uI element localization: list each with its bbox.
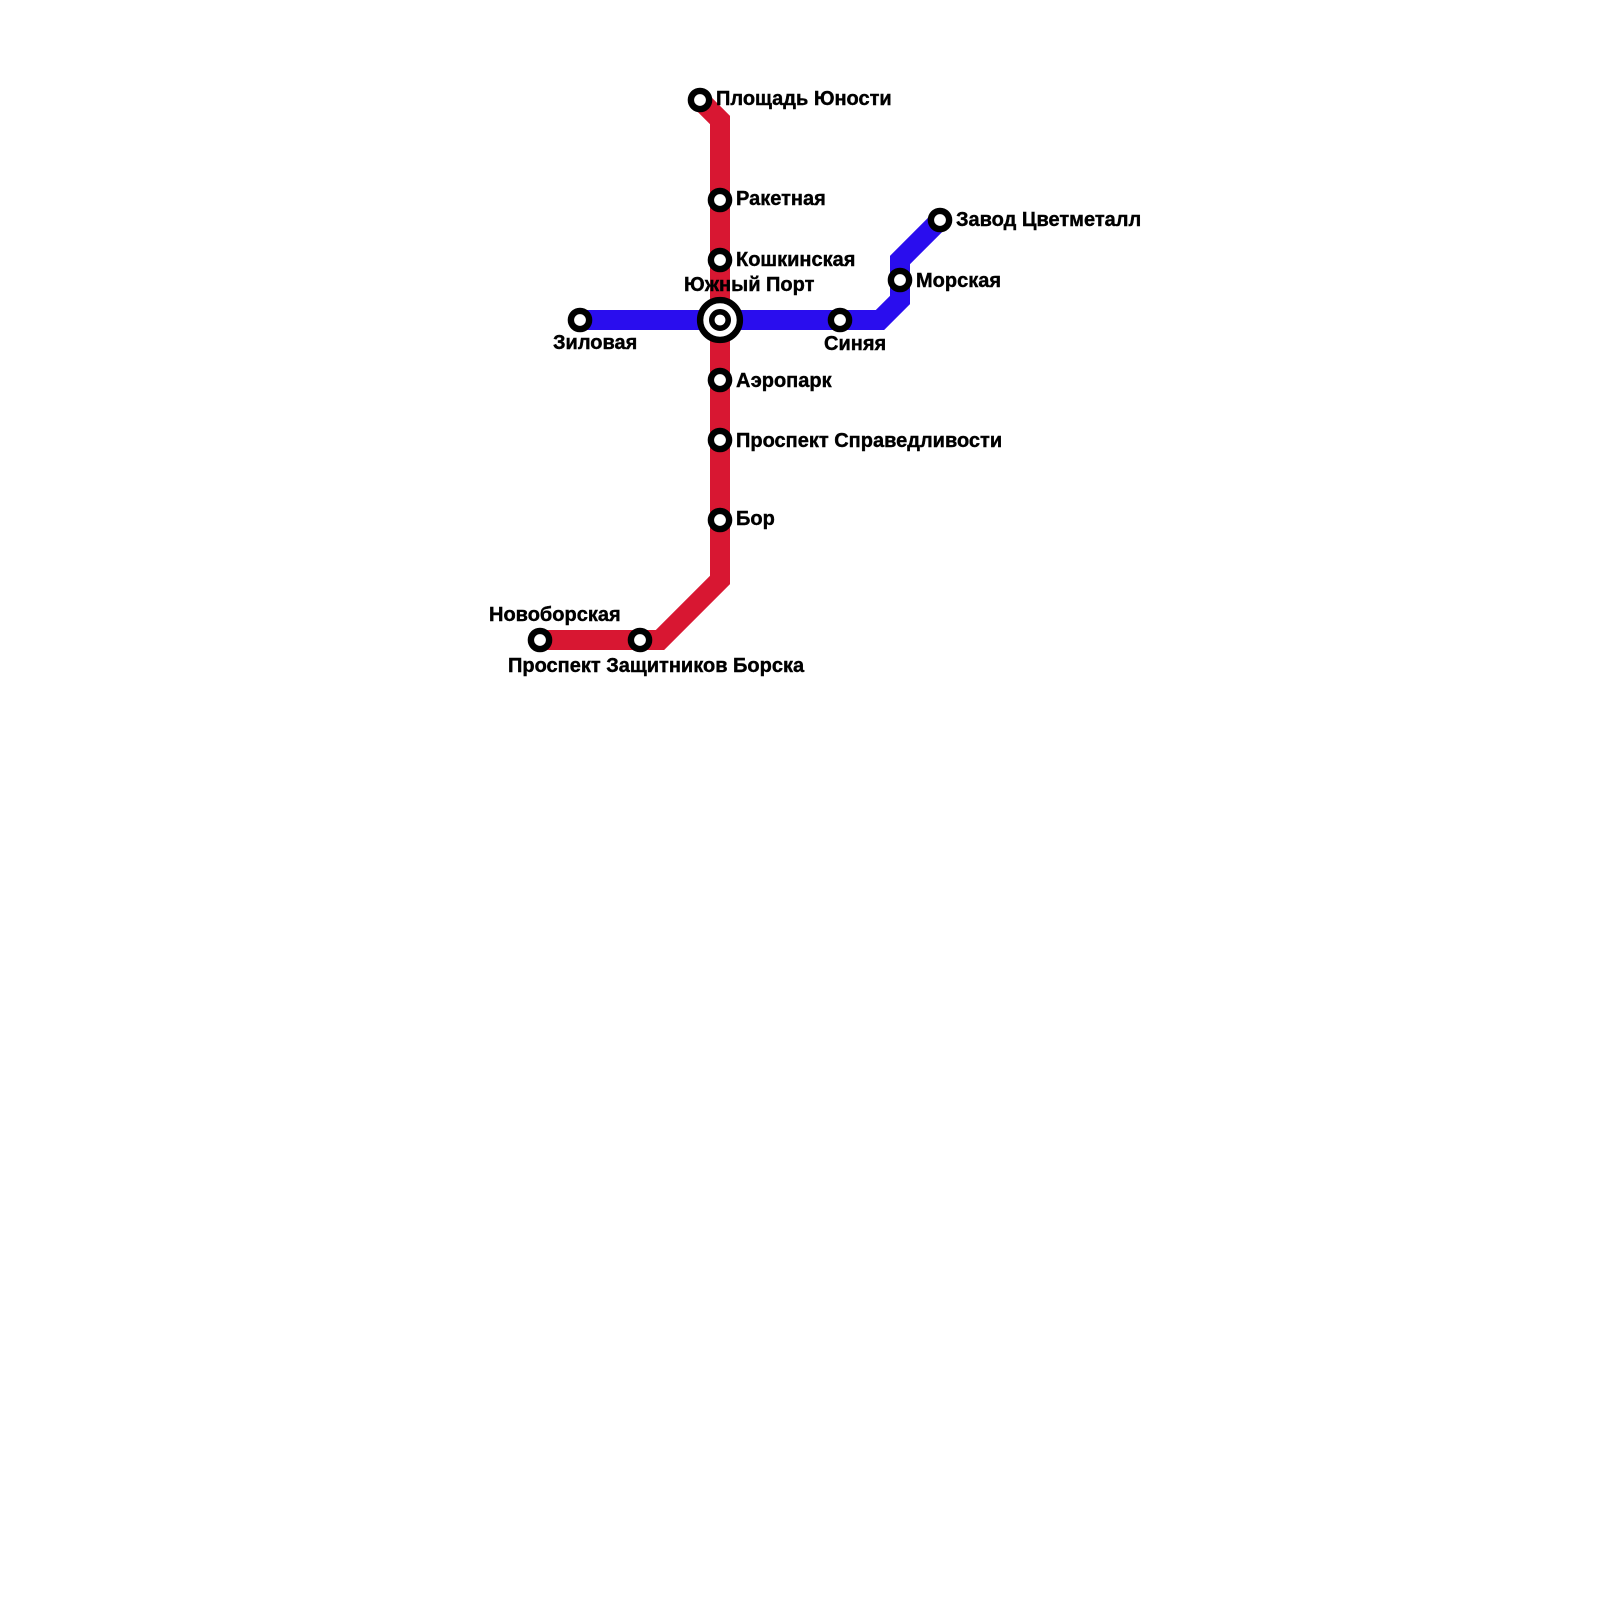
station Проспект Защитников Борска <box>631 631 649 649</box>
station Ракетная <box>711 191 729 209</box>
svg-text:Морская: Морская <box>916 270 1001 292</box>
station Морская <box>891 271 909 289</box>
station Проспект Справедливости <box>711 431 729 449</box>
station Аэропарк <box>711 371 729 389</box>
svg-text:Бор: Бор <box>736 508 775 530</box>
station Синяя <box>831 311 849 329</box>
station Кошкинская <box>711 251 729 269</box>
station Площадь Юности <box>691 91 709 109</box>
station Зиловая <box>571 311 589 329</box>
blue line (horizontal route) <box>580 220 940 320</box>
svg-text:Кошкинская: Кошкинская <box>736 249 855 271</box>
red line (vertical route) <box>540 100 720 640</box>
svg-text:Синяя: Синяя <box>824 333 886 355</box>
svg-text:Зиловая: Зиловая <box>553 332 637 354</box>
station Завод Цветметалл <box>931 211 949 229</box>
svg-text:Завод Цветметалл: Завод Цветметалл <box>956 209 1141 231</box>
svg-text:Аэропарк: Аэропарк <box>736 370 833 392</box>
svg-text:Площадь Юности: Площадь Юности <box>716 88 892 110</box>
station Бор <box>711 511 729 529</box>
svg-text:Новоборская: Новоборская <box>489 604 621 626</box>
svg-text:Ракетная: Ракетная <box>736 188 826 210</box>
svg-text:Южный Порт: Южный Порт <box>684 274 815 296</box>
svg-text:Проспект Защитников Борска: Проспект Защитников Борска <box>508 655 805 677</box>
transfer station Южный Порт <box>700 300 740 340</box>
station Новоборская <box>531 631 549 649</box>
svg-text:Проспект Справедливости: Проспект Справедливости <box>736 430 1002 452</box>
